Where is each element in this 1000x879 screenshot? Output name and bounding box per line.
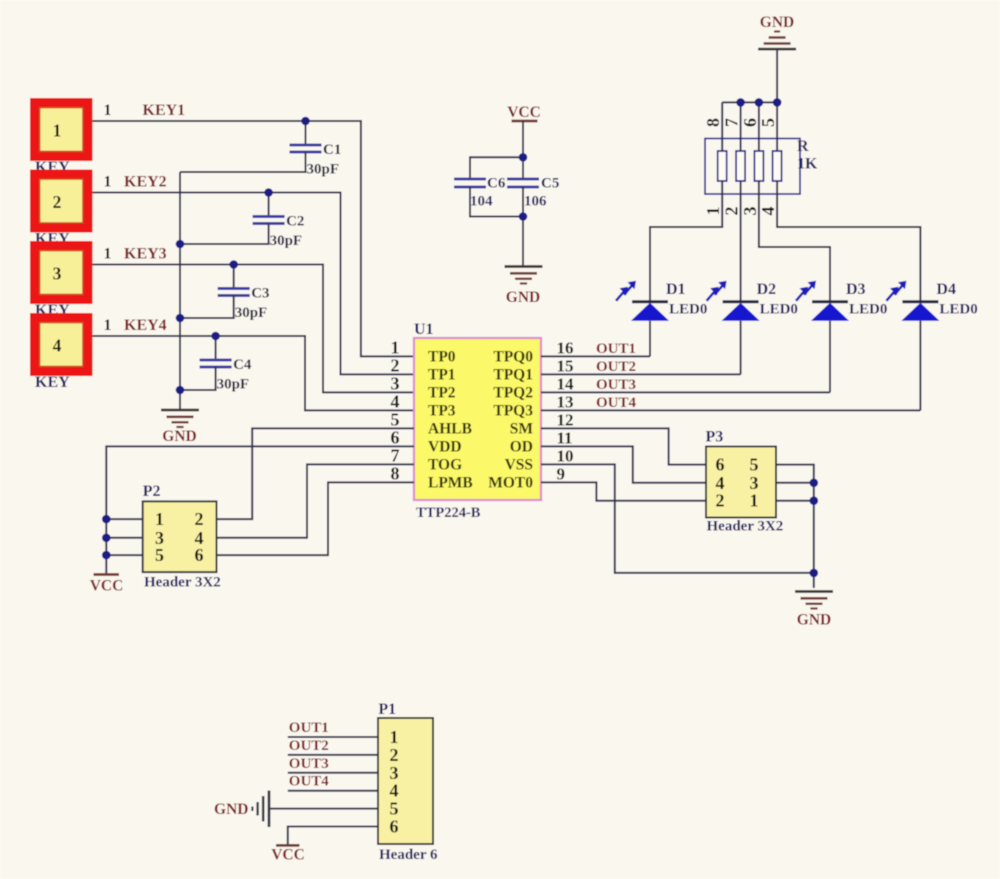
- junction C3 to bus: [176, 314, 185, 323]
- capacitor C1 30pF: [305, 121, 307, 145]
- svg-text:2: 2: [722, 207, 742, 216]
- wire VSS pin10 to ground: [541, 464, 814, 573]
- resistor element at x=740.6: [736, 151, 745, 181]
- wire VCC to C5: [522, 121, 524, 179]
- wire OUT2 pin15 to D2: [541, 373, 741, 375]
- arrows of D3: [804, 284, 813, 295]
- svg-text:LED0: LED0: [669, 302, 707, 318]
- wire OUT1 pin16 to D1: [541, 355, 650, 357]
- wire resistor pin3 to D3: [759, 181, 830, 303]
- svg-text:C5: C5: [541, 176, 559, 192]
- resistor element at x=722.2: [718, 151, 727, 181]
- wire D2 cathode down: [740, 321, 742, 375]
- wire LPMB pin8 to P2 pin6: [217, 482, 415, 555]
- svg-text:VCC: VCC: [90, 578, 124, 595]
- svg-text:C3: C3: [251, 286, 269, 302]
- header P2 body: [143, 501, 217, 572]
- arrows of D2: [715, 284, 724, 295]
- svg-text:VCC: VCC: [507, 104, 541, 121]
- wire resistor pin2 to D2: [740, 181, 742, 303]
- svg-text:VSS: VSS: [505, 456, 533, 473]
- junction bus pin7: [736, 98, 745, 107]
- svg-text:15: 15: [557, 356, 574, 375]
- svg-text:7: 7: [722, 118, 742, 127]
- svg-text:5: 5: [758, 118, 778, 127]
- LED D1: [632, 300, 668, 303]
- wire C5 to ground: [522, 187, 524, 266]
- junction bus pin6: [755, 98, 764, 107]
- junction C2 to bus: [176, 240, 185, 249]
- svg-text:1: 1: [53, 121, 62, 141]
- svg-text:OUT2: OUT2: [596, 359, 636, 375]
- svg-text:P1: P1: [378, 701, 396, 718]
- resistor element at x=758.9: [754, 151, 763, 181]
- svg-text:TP0: TP0: [428, 348, 456, 365]
- resistor network R 1K box: [705, 139, 800, 195]
- resistor element at x=777.1: [773, 151, 782, 181]
- svg-text:30pF: 30pF: [235, 305, 268, 321]
- wire resistor top bus: [722, 101, 777, 103]
- junction ground node C5 C6: [519, 212, 528, 221]
- svg-text:TP3: TP3: [428, 402, 456, 419]
- key button 4: [30, 313, 93, 376]
- ground bars top right (inverted): [758, 48, 796, 51]
- wire resistor pin4 to D4: [777, 181, 920, 303]
- wire resistor pin 6: [758, 102, 760, 151]
- svg-text:D1: D1: [666, 281, 686, 298]
- svg-text:P2: P2: [143, 483, 161, 500]
- svg-text:C6: C6: [487, 176, 506, 192]
- svg-text:6: 6: [716, 455, 725, 475]
- svg-text:1K: 1K: [797, 156, 818, 173]
- svg-text:16: 16: [557, 338, 574, 357]
- header P3 body: [706, 447, 776, 518]
- wire resistor pin 5: [776, 102, 778, 151]
- svg-text:R: R: [797, 138, 809, 155]
- svg-text:106: 106: [524, 194, 547, 210]
- junction C1 top: [301, 117, 310, 126]
- svg-text:9: 9: [557, 464, 566, 483]
- svg-text:GND: GND: [162, 428, 196, 445]
- svg-text:VCC: VCC: [271, 847, 305, 864]
- svg-text:8: 8: [703, 118, 723, 127]
- svg-text:3: 3: [740, 207, 760, 216]
- junction VSS to P3 ground: [810, 569, 819, 578]
- junction C4 top: [211, 332, 220, 341]
- svg-text:VDD: VDD: [428, 438, 462, 455]
- key button 1: [30, 98, 93, 161]
- svg-text:OUT4: OUT4: [289, 774, 330, 790]
- svg-text:1: 1: [104, 174, 112, 191]
- svg-text:TP1: TP1: [428, 366, 456, 383]
- svg-text:C1: C1: [323, 142, 341, 158]
- junction P2 pin 3 to VCC rail: [102, 534, 111, 543]
- svg-text:2: 2: [391, 355, 400, 375]
- svg-text:1: 1: [750, 491, 759, 511]
- wire P1 pin5 to ground: [269, 808, 378, 810]
- svg-text:KEY2: KEY2: [124, 174, 167, 191]
- ground symbol below C5 C6: [505, 265, 543, 268]
- junction P2 pin 1 to VCC rail: [102, 515, 111, 524]
- capacitor C2 30pF: [268, 193, 270, 217]
- svg-text:GND: GND: [760, 14, 794, 31]
- svg-text:1: 1: [155, 509, 164, 529]
- wire P1 pin6 to VCC: [288, 827, 378, 846]
- svg-text:KEY3: KEY3: [124, 246, 167, 263]
- svg-text:1: 1: [391, 337, 400, 357]
- svg-text:2: 2: [716, 491, 725, 511]
- capacitor C3 30pF: [233, 265, 235, 289]
- svg-text:LPMB: LPMB: [428, 474, 473, 491]
- junction bus pin5: [773, 98, 782, 107]
- wire OUT4 pin13 to D4: [541, 409, 920, 411]
- svg-text:LED0: LED0: [849, 302, 887, 318]
- wire KEY2 net: key2 to U1 pin 2: [93, 193, 415, 375]
- capacitor C5 106: [507, 179, 539, 187]
- junction P2 pin 5 to VCC rail: [102, 551, 111, 560]
- svg-text:6: 6: [740, 118, 760, 127]
- svg-text:4: 4: [391, 391, 400, 411]
- LED D2: [723, 300, 759, 303]
- svg-text:C2: C2: [286, 214, 304, 230]
- svg-text:14: 14: [557, 374, 575, 393]
- wire KEY4 net: key4 to U1 pin 4: [93, 336, 415, 410]
- wire OUT3 to P1 pin 3: [288, 772, 378, 774]
- svg-text:5: 5: [750, 455, 759, 475]
- svg-text:OUT1: OUT1: [289, 720, 329, 736]
- svg-text:GND: GND: [797, 612, 831, 629]
- svg-text:TPQ3: TPQ3: [493, 402, 533, 419]
- svg-text:10: 10: [557, 446, 574, 465]
- wire P3 pin3 stub: [776, 482, 814, 484]
- svg-text:KEY1: KEY1: [143, 102, 186, 119]
- wire OUT1 to P1 pin 1: [288, 736, 378, 738]
- LED D4: [902, 300, 938, 303]
- op IC U1 TTP224-B body: [414, 338, 541, 500]
- svg-text:30pF: 30pF: [217, 377, 250, 393]
- svg-text:Header 3X2: Header 3X2: [707, 519, 784, 535]
- svg-text:7: 7: [391, 445, 400, 465]
- key button 2: [30, 170, 93, 233]
- svg-text:MOT0: MOT0: [488, 474, 533, 491]
- wire MOT0 pin9 to P3 pin2: [541, 482, 706, 500]
- svg-text:GND: GND: [214, 801, 248, 818]
- svg-text:2: 2: [53, 192, 62, 212]
- svg-text:SM: SM: [510, 420, 534, 437]
- wire P2 pin 3 stub: [106, 537, 142, 539]
- svg-text:5: 5: [391, 409, 400, 429]
- wire D3 cathode down: [829, 321, 831, 393]
- svg-text:KEY: KEY: [35, 374, 70, 391]
- svg-text:U1: U1: [414, 321, 434, 338]
- svg-text:3: 3: [53, 264, 62, 284]
- wire P3 pin5 down to ground: [776, 465, 814, 588]
- wire KEY3 net: key3 to U1 pin 3: [93, 265, 415, 393]
- svg-text:8: 8: [391, 463, 400, 483]
- wire resistor pin1 to D1: [650, 181, 722, 303]
- junction P3 pin1: [810, 496, 819, 505]
- header P1 body: [378, 718, 433, 844]
- svg-text:4: 4: [53, 336, 62, 356]
- svg-text:1: 1: [104, 246, 112, 263]
- svg-text:KEY4: KEY4: [124, 317, 167, 334]
- svg-text:OUT3: OUT3: [289, 756, 329, 772]
- svg-text:1: 1: [703, 207, 723, 216]
- wire OUT2 to P1 pin 2: [288, 754, 378, 756]
- svg-text:TTP224-B: TTP224-B: [416, 505, 481, 521]
- wire capacitor ground bus: [179, 172, 181, 410]
- ground symbol below P3: [795, 590, 833, 593]
- svg-text:GND: GND: [506, 289, 540, 306]
- ground symbol below key capacitors: [161, 409, 199, 412]
- svg-text:AHLB: AHLB: [428, 420, 472, 437]
- svg-text:3: 3: [391, 373, 400, 393]
- arrows of D4: [894, 284, 903, 295]
- wire resistor pin 7: [740, 102, 742, 151]
- svg-text:D2: D2: [757, 281, 777, 298]
- svg-text:C4: C4: [233, 357, 252, 373]
- svg-text:104: 104: [470, 194, 493, 210]
- wire OD pin11 to P3 pin4: [541, 446, 706, 482]
- svg-text:OD: OD: [510, 438, 533, 455]
- wire D1 cathode down: [649, 321, 651, 357]
- svg-text:TP2: TP2: [428, 384, 456, 401]
- svg-text:TOG: TOG: [428, 456, 462, 473]
- wire VDD pin6 to VCC rail: [106, 446, 414, 574]
- svg-text:2: 2: [195, 509, 204, 529]
- svg-text:TPQ1: TPQ1: [493, 366, 533, 383]
- power symbol VCC below P2: [94, 573, 120, 576]
- svg-text:1: 1: [104, 102, 112, 119]
- wire OUT3 pin14 to D3: [541, 391, 830, 393]
- svg-text:TPQ2: TPQ2: [493, 384, 533, 401]
- LED D3: [812, 300, 848, 303]
- key button 3: [30, 241, 93, 304]
- junction C3 top: [229, 260, 238, 269]
- wire TOG pin7 to P2 pin4: [217, 464, 415, 537]
- svg-text:OUT2: OUT2: [289, 738, 329, 754]
- wire KEY1 net: key1 to U1 pin 1: [93, 121, 415, 356]
- svg-text:LED0: LED0: [760, 302, 798, 318]
- capacitor C6 104: [454, 179, 486, 187]
- wire P2 pin 5 stub: [106, 554, 142, 556]
- junction P3 pin3: [810, 479, 819, 488]
- capacitor C4 30pF: [215, 336, 217, 360]
- svg-text:OUT4: OUT4: [596, 395, 637, 411]
- svg-text:Header 6: Header 6: [379, 847, 438, 863]
- svg-text:11: 11: [557, 428, 573, 447]
- svg-text:13: 13: [557, 392, 574, 411]
- wire branch to C6: [470, 157, 523, 179]
- wire OUT4 to P1 pin 4: [288, 790, 378, 792]
- svg-text:12: 12: [557, 410, 574, 429]
- svg-text:30pF: 30pF: [307, 162, 340, 178]
- wire SM pin12 to P3 pin6: [541, 428, 706, 464]
- svg-text:5: 5: [155, 545, 164, 565]
- svg-text:4: 4: [758, 207, 778, 216]
- wire C6 bottom: [470, 187, 523, 217]
- wire P3 pin1 stub: [776, 500, 814, 502]
- svg-text:OUT1: OUT1: [596, 341, 636, 357]
- svg-text:6: 6: [390, 817, 399, 837]
- wire P2 pin 1 stub: [106, 518, 142, 520]
- svg-text:D4: D4: [936, 281, 956, 298]
- svg-text:D3: D3: [846, 281, 866, 298]
- svg-text:OUT3: OUT3: [596, 377, 636, 393]
- svg-text:LED0: LED0: [939, 302, 977, 318]
- junction C4 to bus: [176, 386, 185, 395]
- wire GND to resistor bus: [776, 49, 778, 102]
- svg-text:6: 6: [391, 427, 400, 447]
- svg-text:Header 3X2: Header 3X2: [144, 575, 221, 591]
- wire resistor pin 8: [721, 102, 723, 151]
- svg-text:30pF: 30pF: [270, 233, 303, 249]
- svg-text:P3: P3: [706, 429, 724, 446]
- arrows of D1: [624, 284, 633, 295]
- svg-text:1: 1: [104, 317, 112, 334]
- junction VCC node: [519, 153, 528, 162]
- wire D4 cathode down: [919, 321, 921, 411]
- svg-text:6: 6: [195, 545, 204, 565]
- wire AHLB pin5 to P2 pin2: [217, 428, 415, 519]
- svg-text:TPQ0: TPQ0: [493, 348, 533, 365]
- junction C2 top: [264, 188, 273, 197]
